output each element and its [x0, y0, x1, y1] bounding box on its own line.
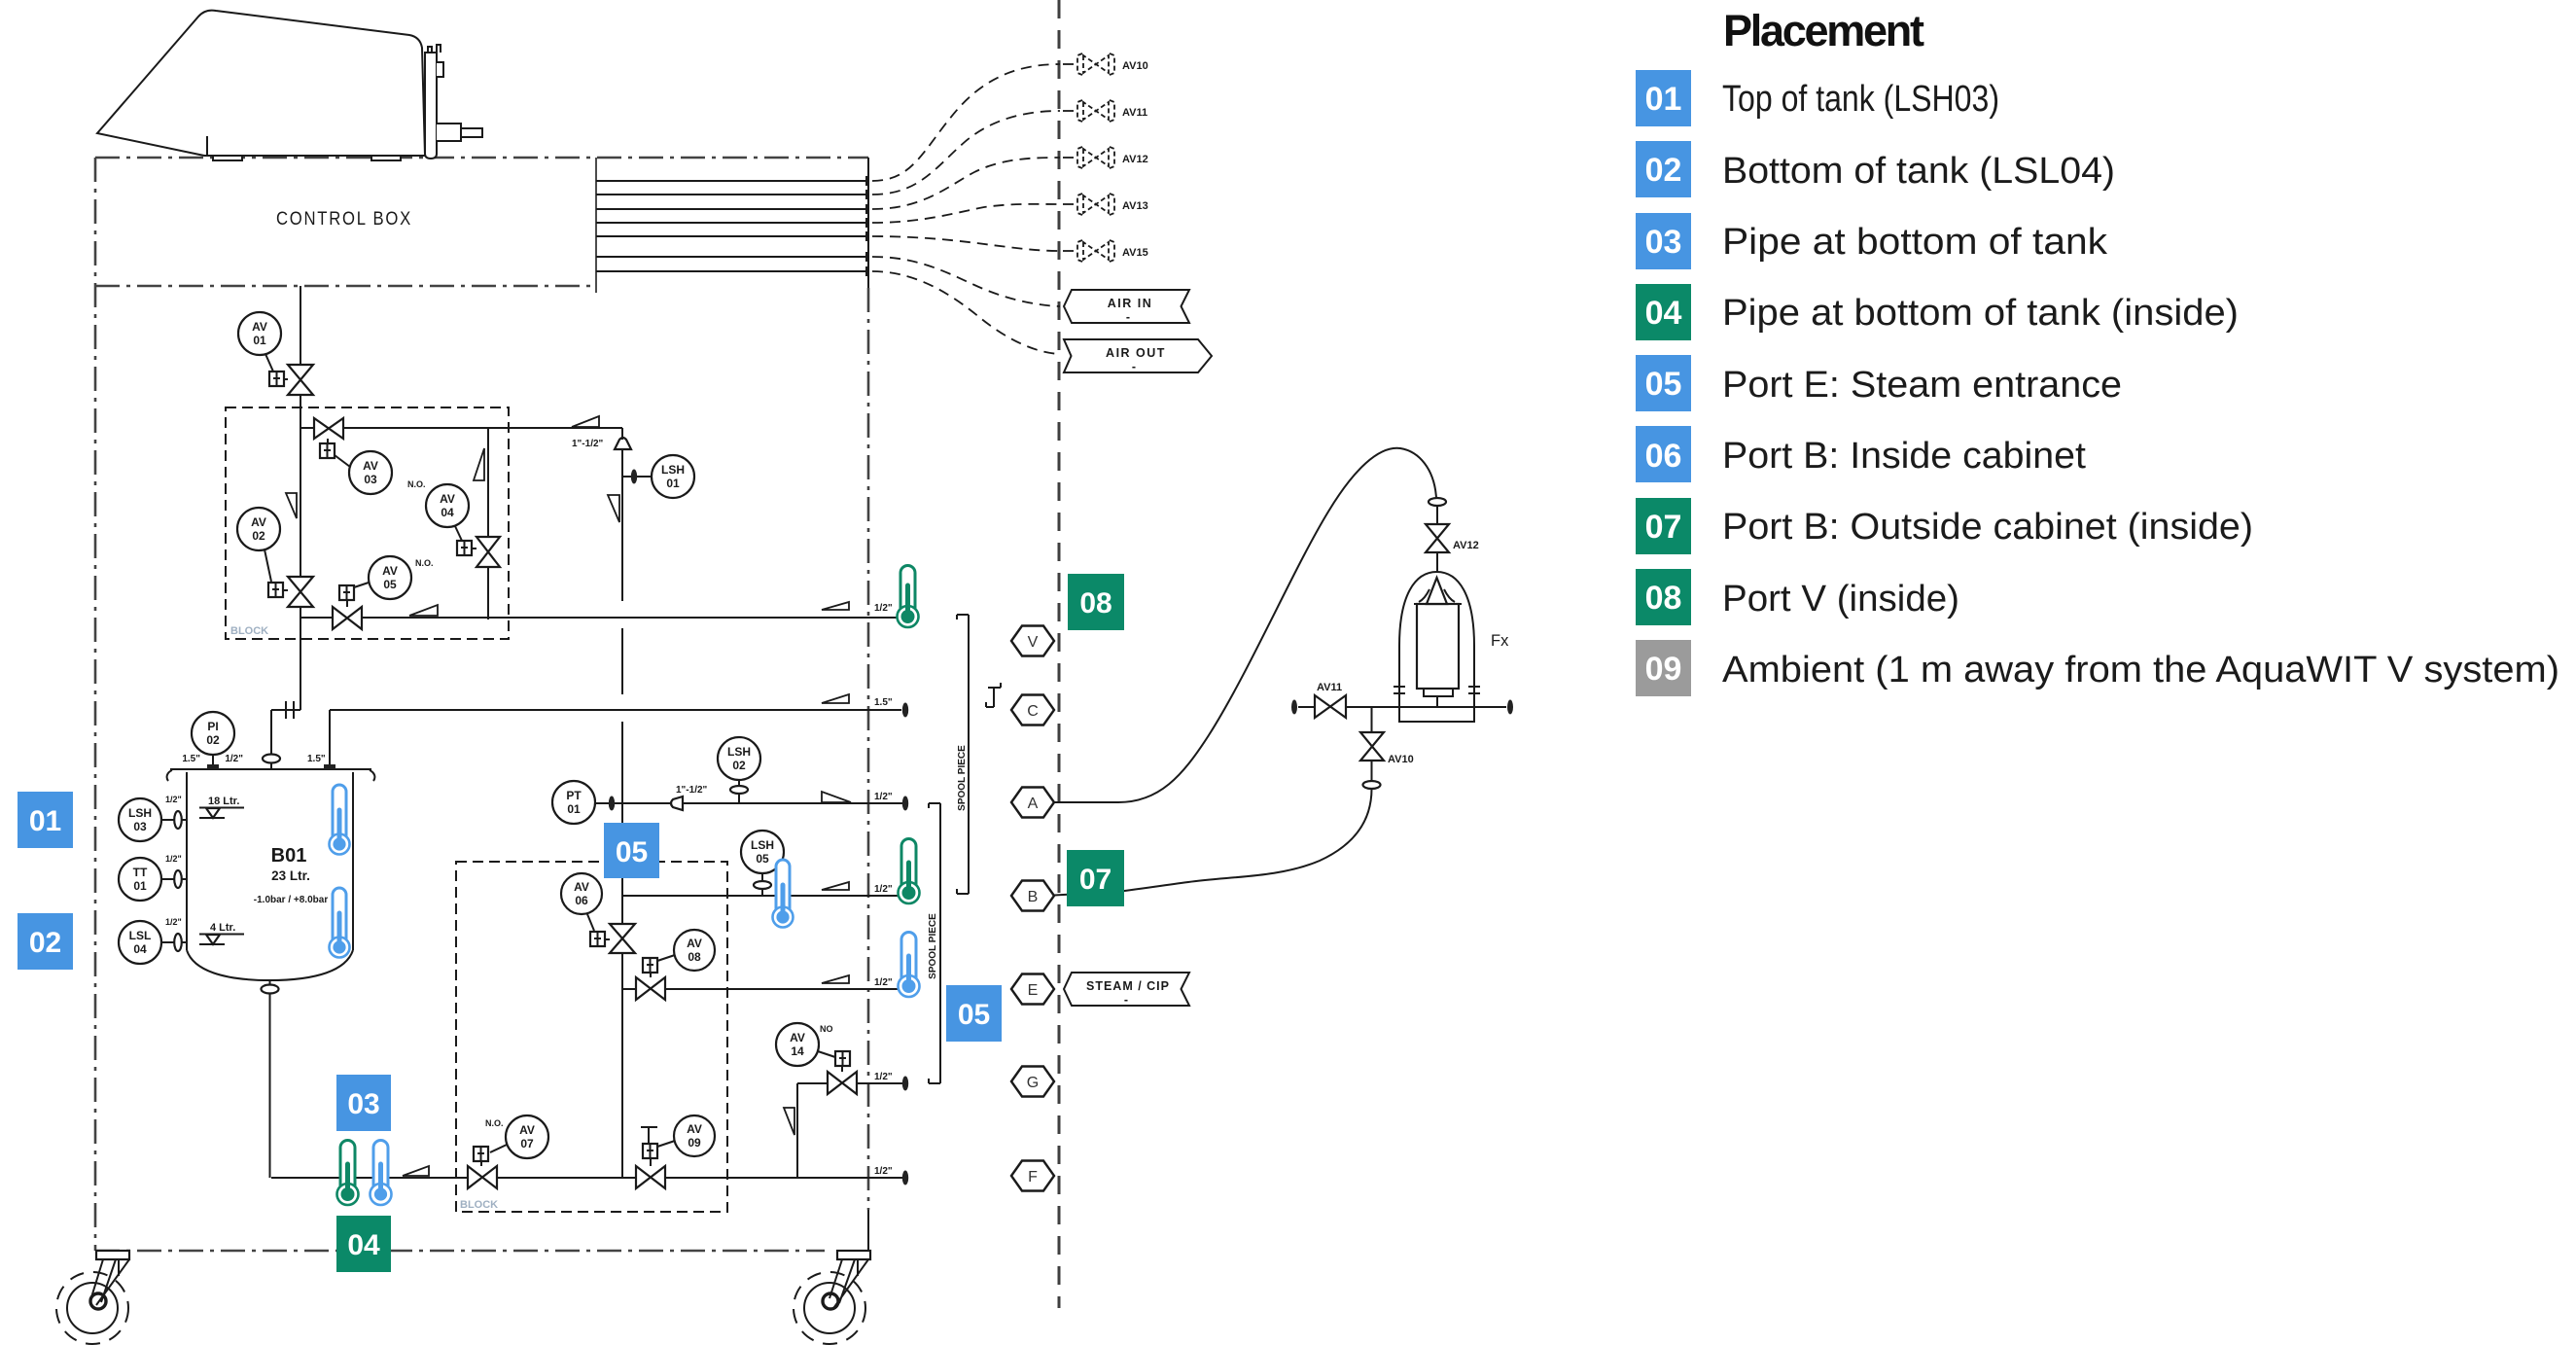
svg-text:PI: PI — [207, 720, 218, 733]
svg-text:AV: AV — [440, 492, 455, 506]
svg-text:N.O.: N.O. — [407, 479, 426, 489]
svg-text:LSH: LSH — [727, 745, 751, 759]
flow wedge on G riser — [784, 1108, 794, 1135]
C line end fitting — [902, 703, 908, 718]
svg-text:01: 01 — [253, 334, 266, 347]
svg-text:02: 02 — [252, 529, 265, 543]
valve AV12 — [1426, 506, 1479, 572]
svg-text:1"-1/2": 1"-1/2" — [676, 785, 708, 796]
valve AV07 — [468, 1115, 548, 1188]
BLOCK 1 dashed box — [226, 407, 509, 639]
svg-text:-: - — [1126, 310, 1130, 324]
instrument LSH05 — [741, 831, 784, 896]
marker box 02 — [18, 913, 73, 970]
node C hexagon — [1011, 695, 1054, 726]
legend item 05 — [1636, 355, 2122, 411]
svg-text:1/2": 1/2" — [165, 917, 182, 927]
left caster — [56, 1251, 129, 1344]
pipe curve from node A to Fx — [1054, 448, 1436, 802]
control signal line 5 — [596, 231, 866, 241]
A line — [595, 802, 905, 804]
legend item 03 — [1636, 213, 2108, 269]
svg-text:06: 06 — [575, 894, 588, 907]
svg-text:Port E: Steam entrance: Port E: Steam entrance — [1722, 365, 2122, 406]
svg-text:02: 02 — [1645, 152, 1682, 189]
svg-text:08: 08 — [688, 950, 701, 964]
svg-text:PT: PT — [566, 789, 582, 802]
svg-text:AV: AV — [687, 1122, 702, 1136]
svg-text:1/2": 1/2" — [874, 977, 893, 988]
svg-text:04: 04 — [133, 942, 147, 956]
pipe curve from AV10 to node B — [1054, 789, 1372, 896]
signal curve to AIR IN — [872, 257, 1060, 306]
svg-text:02: 02 — [206, 733, 220, 747]
svg-text:AIR OUT: AIR OUT — [1106, 346, 1166, 360]
E line — [622, 988, 905, 990]
svg-text:AV: AV — [252, 320, 267, 334]
node V hexagon — [1011, 626, 1054, 656]
svg-text:AV11: AV11 — [1317, 682, 1342, 693]
svg-text:1.5": 1.5" — [307, 754, 326, 764]
svg-text:07: 07 — [1079, 864, 1112, 896]
legend item 01 — [1636, 70, 1999, 126]
union on pipe to tank — [286, 701, 294, 719]
svg-text:01: 01 — [1645, 81, 1682, 118]
valve AV15 (pneumatic, dashed) — [1063, 240, 1148, 262]
tank bottom outlet — [269, 980, 271, 1178]
svg-text:1/2": 1/2" — [165, 854, 182, 864]
svg-text:SPOOL PIECE: SPOOL PIECE — [957, 745, 968, 811]
instrument LSH02 — [718, 737, 760, 803]
valve AV12 (pneumatic, dashed) — [1063, 147, 1148, 168]
svg-text:07: 07 — [520, 1137, 534, 1150]
A line end fitting — [902, 796, 908, 811]
svg-text:LSH: LSH — [128, 806, 152, 820]
tank top center port — [270, 762, 272, 769]
svg-text:05: 05 — [756, 852, 769, 866]
marker box 05 (steam entrance) — [604, 823, 659, 878]
marker box 04 — [336, 1216, 391, 1272]
cabinet boundary bottom dash-dot — [95, 1250, 825, 1253]
svg-text:AIR IN: AIR IN — [1108, 297, 1153, 310]
svg-text:1/2": 1/2" — [874, 884, 893, 895]
marker box 08 — [1068, 574, 1124, 630]
svg-text:1/2": 1/2" — [874, 792, 893, 802]
spool piece bracket (V to B) — [957, 615, 969, 894]
legend item 02 — [1636, 141, 2115, 197]
svg-text:AV11: AV11 — [1122, 107, 1147, 119]
svg-text:-: - — [1132, 360, 1136, 373]
valve AV09 — [636, 1115, 715, 1188]
tank B01 shell — [167, 769, 375, 980]
block1 right branch vertical — [487, 428, 489, 619]
blue thermometer at E line end — [899, 933, 920, 998]
svg-text:05: 05 — [1645, 366, 1682, 403]
control signal line 6 — [596, 252, 866, 262]
cabinet boundary right dash-dot — [867, 288, 870, 1210]
svg-text:AV12: AV12 — [1453, 540, 1479, 551]
svg-text:Pipe at bottom of tank (inside: Pipe at bottom of tank (inside) — [1722, 293, 2239, 334]
svg-text:Placement: Placement — [1723, 6, 1924, 55]
riser from corner to A line (jumps V and C lines) — [621, 428, 623, 1178]
svg-text:02: 02 — [29, 927, 61, 959]
valve AV14 — [776, 1023, 857, 1094]
G line — [797, 1083, 905, 1178]
green thermometer at B line end — [899, 839, 920, 903]
flow wedge on E line — [822, 975, 849, 983]
reducer 1in-1/2in at corner — [615, 438, 631, 449]
svg-text:1/2": 1/2" — [165, 795, 182, 804]
cabinet right solid segment to caster — [867, 1210, 869, 1252]
valve AV11 (pneumatic, dashed) — [1063, 100, 1147, 122]
signal curve to AV15 — [872, 236, 1060, 251]
svg-text:Fx: Fx — [1491, 632, 1509, 650]
svg-text:A: A — [1028, 796, 1039, 812]
svg-text:AV10: AV10 — [1388, 754, 1414, 765]
svg-text:1.5": 1.5" — [182, 754, 200, 764]
main vertical pipe from control box — [271, 286, 300, 756]
svg-text:E: E — [1028, 982, 1039, 999]
flow wedge on bottom line — [403, 1166, 429, 1176]
B line — [622, 895, 898, 897]
block1 bottom line (to port V) — [300, 617, 897, 619]
blue thermometer on B line — [773, 860, 794, 928]
svg-text:09: 09 — [1645, 651, 1682, 688]
reducer on A line — [671, 796, 683, 810]
svg-text:STEAM / CIP: STEAM / CIP — [1086, 979, 1170, 993]
svg-text:B01: B01 — [271, 845, 307, 867]
svg-text:03: 03 — [364, 473, 377, 486]
svg-text:NO: NO — [820, 1024, 833, 1034]
svg-text:BLOCK: BLOCK — [230, 625, 268, 637]
svg-text:01: 01 — [666, 477, 680, 490]
signal curve to AV11 — [872, 111, 1060, 195]
marker box 05 (port E) — [946, 985, 1002, 1042]
svg-text:Port B: Inside cabinet: Port B: Inside cabinet — [1722, 436, 2086, 477]
svg-text:14: 14 — [791, 1044, 804, 1058]
legend item 07 — [1636, 498, 2253, 554]
marker box 07 — [1067, 850, 1124, 906]
spool tick at C line — [986, 683, 1001, 707]
vertical dashed border line — [1058, 0, 1061, 1308]
svg-text:09: 09 — [688, 1136, 701, 1150]
svg-text:LSL: LSL — [129, 929, 152, 942]
control signal line 7 — [596, 266, 866, 276]
node B hexagon — [1011, 881, 1054, 911]
svg-text:Bottom of tank (LSL04): Bottom of tank (LSL04) — [1722, 151, 2115, 192]
svg-text:N.O.: N.O. — [415, 558, 434, 568]
instrument LSH01 — [622, 455, 694, 498]
svg-text:1"-1/2": 1"-1/2" — [572, 439, 604, 449]
svg-text:AV: AV — [574, 880, 589, 894]
legend item 04 — [1636, 284, 2239, 340]
signal curve to AV13 — [872, 204, 1060, 223]
control signal line 3 — [596, 204, 866, 214]
svg-text:C: C — [1027, 703, 1039, 720]
svg-text:AV: AV — [382, 564, 398, 578]
svg-text:F: F — [1028, 1169, 1038, 1186]
svg-text:Pipe at bottom of tank: Pipe at bottom of tank — [1722, 222, 2108, 263]
svg-text:04: 04 — [347, 1229, 380, 1261]
svg-text:LSH: LSH — [661, 463, 685, 477]
svg-text:1.5": 1.5" — [874, 697, 893, 708]
AIR OUT banner — [1064, 339, 1212, 373]
svg-text:1/2": 1/2" — [874, 1166, 893, 1177]
AIR IN banner — [1064, 290, 1189, 324]
svg-text:AV10: AV10 — [1122, 60, 1148, 72]
right caster — [794, 1251, 870, 1344]
svg-text:4 Ltr.: 4 Ltr. — [210, 922, 235, 934]
svg-text:TT: TT — [133, 866, 148, 879]
legend item 06 — [1636, 426, 2086, 482]
bottom line end fitting — [902, 1171, 908, 1186]
svg-text:SPOOL PIECE: SPOOL PIECE — [928, 913, 938, 979]
svg-text:Ambient (1 m away from the Aqu: Ambient (1 m away from the AquaWIT V sys… — [1722, 650, 2559, 690]
green thermometer at tank outlet — [337, 1141, 359, 1205]
svg-text:05: 05 — [616, 836, 648, 868]
flow wedge on block1 bottom line — [409, 605, 438, 616]
G line end fitting — [902, 1077, 908, 1091]
svg-text:03: 03 — [133, 820, 147, 833]
flange above AV12 — [1429, 498, 1446, 506]
svg-text:05: 05 — [383, 578, 397, 591]
valve AV08 — [636, 930, 715, 1000]
flow wedge on B line — [822, 882, 849, 890]
machine hood profile — [97, 11, 425, 160]
control box right solid wall — [867, 158, 869, 288]
svg-text:AV15: AV15 — [1122, 247, 1148, 259]
flow wedge below LSH01 — [608, 495, 619, 522]
instrument LSL04 — [119, 917, 187, 964]
control box bottom dash-dot — [95, 285, 596, 288]
svg-text:08: 08 — [1645, 580, 1682, 617]
node F hexagon — [1011, 1161, 1054, 1191]
svg-text:04: 04 — [1645, 295, 1682, 332]
node G hexagon — [1011, 1067, 1054, 1097]
flow wedge in block1 left — [286, 493, 297, 518]
svg-text:-: - — [1124, 993, 1128, 1007]
instrument PI02 — [182, 712, 234, 769]
svg-text:08: 08 — [1079, 587, 1112, 619]
valve AV01 — [238, 312, 313, 395]
svg-text:BLOCK: BLOCK — [460, 1199, 498, 1211]
svg-text:N.O.: N.O. — [485, 1118, 504, 1128]
Fx vessel — [1394, 572, 1509, 722]
bottom line (port F) — [271, 1177, 905, 1179]
level mark 4 Ltr — [199, 922, 244, 944]
node E hexagon — [1011, 974, 1054, 1005]
blue thermometer inside tank (lower) — [330, 888, 350, 958]
signal curve to AV10 — [872, 64, 1060, 181]
svg-text:03: 03 — [1645, 224, 1682, 261]
control box right edge — [595, 158, 597, 293]
svg-text:01: 01 — [29, 805, 61, 837]
signal curve to AV12 — [872, 158, 1060, 209]
svg-text:V: V — [1028, 634, 1039, 651]
valve AV04 — [407, 479, 500, 567]
svg-text:02: 02 — [732, 759, 746, 772]
valve AV11 — [1315, 682, 1346, 718]
STEAM / CIP banner — [1064, 973, 1189, 1007]
instrument PT01 — [552, 781, 595, 824]
svg-text:06: 06 — [1645, 438, 1682, 475]
svg-text:LSH: LSH — [751, 838, 774, 852]
svg-text:AV13: AV13 — [1122, 200, 1148, 212]
svg-text:18 Ltr.: 18 Ltr. — [208, 796, 239, 807]
instrument LSH03 — [119, 795, 187, 841]
block1 top line — [300, 427, 622, 429]
svg-text:AV: AV — [251, 515, 266, 529]
svg-text:01: 01 — [567, 802, 581, 816]
cabinet boundary top dash-dot — [95, 157, 868, 159]
legend item 08 — [1636, 569, 1959, 625]
svg-text:Top of tank (LSH03): Top of tank (LSH03) — [1722, 79, 1999, 120]
flow wedge on C line — [822, 694, 849, 703]
flow wedge on top line outside block1 — [572, 416, 599, 427]
svg-text:03: 03 — [347, 1088, 379, 1120]
control signal line 1 — [596, 176, 866, 186]
svg-text:AV: AV — [363, 459, 378, 473]
svg-text:B: B — [1028, 889, 1039, 905]
tank top right port / C riser — [330, 710, 901, 769]
signal curve to AIR OUT — [872, 271, 1060, 354]
svg-text:05: 05 — [958, 999, 990, 1031]
svg-text:G: G — [1027, 1075, 1039, 1091]
svg-text:07: 07 — [1645, 509, 1682, 546]
blue thermometer inside tank (upper) — [330, 785, 350, 855]
valve AV03 — [314, 418, 392, 494]
marker box 01 — [18, 792, 73, 848]
svg-text:23 Ltr.: 23 Ltr. — [271, 868, 310, 883]
node A hexagon — [1011, 788, 1054, 818]
flow wedge on V line — [822, 602, 849, 610]
svg-text:CONTROL BOX: CONTROL BOX — [276, 209, 412, 230]
svg-text:AV12: AV12 — [1122, 154, 1148, 165]
hood rear bracket — [425, 45, 482, 159]
svg-text:01: 01 — [133, 879, 147, 893]
blue thermometer at tank outlet — [371, 1141, 392, 1205]
valve AV10 (right) — [1360, 707, 1414, 789]
valve AV06 — [561, 873, 635, 953]
svg-text:04: 04 — [441, 506, 454, 519]
green thermometer at port V line — [898, 566, 919, 627]
svg-text:1/2": 1/2" — [874, 603, 893, 614]
svg-text:AV: AV — [519, 1123, 535, 1137]
cabinet boundary left dash-dot — [94, 158, 97, 1251]
svg-text:AV: AV — [687, 937, 702, 950]
legend item 09 — [1636, 640, 2559, 696]
valve AV13 (pneumatic, dashed) — [1063, 194, 1148, 215]
control signal line 4 — [596, 218, 866, 228]
valve AV05 — [333, 556, 434, 629]
svg-text:AV: AV — [790, 1031, 805, 1044]
Fx bottom line — [1298, 706, 1506, 708]
BLOCK 2 dashed box — [456, 862, 727, 1212]
control signal line 2 — [596, 190, 866, 199]
svg-text:Port B: Outside cabinet (insid: Port B: Outside cabinet (inside) — [1722, 507, 2253, 548]
valve AV02 — [237, 508, 313, 607]
svg-text:-1.0bar / +8.0bar: -1.0bar / +8.0bar — [254, 895, 329, 905]
flow wedge on A line — [822, 792, 851, 802]
svg-text:1/2": 1/2" — [874, 1072, 893, 1082]
flow wedge near AV04 — [474, 448, 484, 480]
marker box 03 — [336, 1075, 391, 1131]
svg-text:1/2": 1/2" — [225, 754, 243, 764]
svg-text:Port V (inside): Port V (inside) — [1722, 579, 1959, 619]
valve AV10 (pneumatic, dashed) — [1063, 53, 1148, 75]
spool piece bracket (A to G) — [928, 803, 940, 1083]
level mark 18 Ltr — [199, 796, 244, 818]
instrument TT01 — [119, 854, 187, 901]
